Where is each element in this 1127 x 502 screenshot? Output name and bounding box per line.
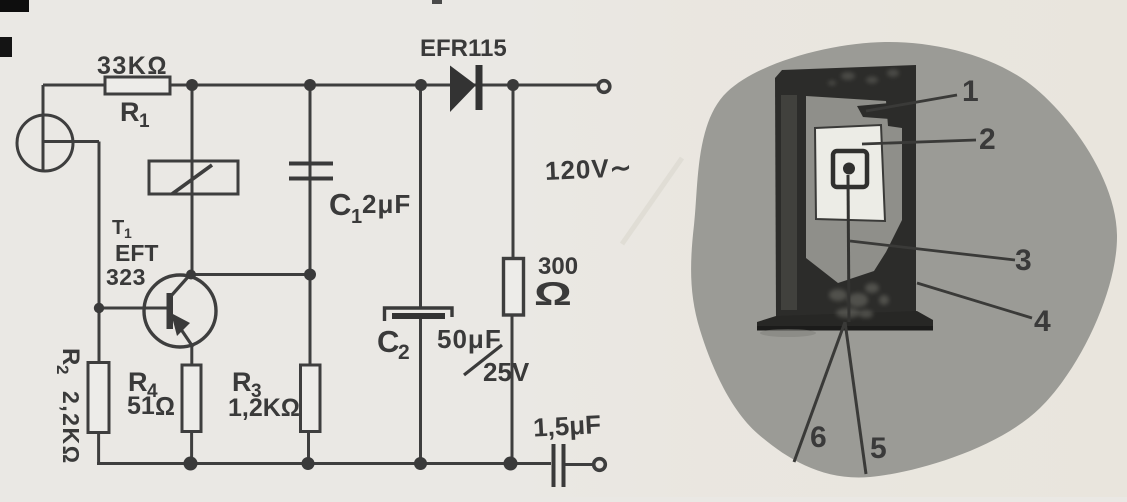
svg-text:2: 2 bbox=[398, 341, 410, 364]
svg-text:33KΩ: 33KΩ bbox=[97, 52, 168, 80]
wire 300ohm column bbox=[512, 85, 515, 259]
wall streak highlight bbox=[781, 95, 797, 310]
speckles base area bbox=[829, 283, 889, 318]
node bottom-R3 bbox=[302, 457, 315, 470]
svg-text:323: 323 bbox=[106, 264, 146, 290]
svg-text:2,2KΩ: 2,2KΩ bbox=[58, 391, 84, 465]
wire top rail bbox=[43, 84, 597, 87]
svg-text:EFT: EFT bbox=[115, 240, 158, 266]
node collector-C1col bbox=[304, 269, 316, 281]
junction square bbox=[833, 151, 867, 187]
microphone M bbox=[17, 115, 73, 171]
node bottom-300 bbox=[504, 457, 518, 471]
callout line 1 bbox=[866, 95, 957, 111]
svg-text:1: 1 bbox=[962, 75, 979, 108]
lead wire from dot bbox=[848, 175, 849, 322]
wire relay column bbox=[191, 85, 194, 275]
terminal bottom right bbox=[594, 459, 606, 471]
svg-text:R: R bbox=[232, 367, 252, 397]
relay coil bbox=[149, 161, 238, 194]
svg-text:51: 51 bbox=[127, 392, 155, 420]
svg-text:Ω: Ω bbox=[534, 275, 572, 312]
svg-text:3: 3 bbox=[1015, 244, 1032, 277]
svg-text:5: 5 bbox=[870, 432, 887, 465]
capacitor 1,5uF bbox=[552, 444, 556, 487]
svg-text:2: 2 bbox=[53, 365, 72, 374]
wire C1 / R3 column bbox=[309, 85, 312, 365]
crystal opening bbox=[806, 96, 902, 283]
white wafer card bbox=[815, 125, 885, 221]
node rail-C1 bbox=[304, 79, 316, 91]
callout line 5 bbox=[845, 322, 866, 474]
callout line 3 bbox=[850, 241, 1015, 260]
node rail-relay bbox=[186, 79, 198, 91]
transistor T1 bbox=[144, 275, 216, 347]
capacitor C2 bbox=[385, 308, 453, 321]
resistor 300 ohm bbox=[504, 259, 524, 316]
node bottom-C2 bbox=[414, 457, 427, 470]
shadow under flange bbox=[760, 329, 816, 337]
ref/value label R2 2,2KΩ (rotated) bbox=[53, 348, 84, 465]
node base bbox=[94, 303, 104, 313]
callout line 6 bbox=[794, 322, 845, 462]
svg-text:Ω: Ω bbox=[155, 391, 175, 421]
wire output cap right bbox=[565, 463, 592, 466]
svg-text:120V∼: 120V∼ bbox=[544, 152, 633, 186]
wire R3 bottom bbox=[307, 432, 310, 465]
svg-text:1,5μF: 1,5μF bbox=[532, 409, 601, 443]
svg-text:C: C bbox=[329, 187, 351, 222]
diode EFR115 bbox=[450, 66, 476, 113]
svg-text:6: 6 bbox=[810, 421, 827, 454]
resistor R1 bbox=[105, 77, 170, 94]
node collector bbox=[186, 270, 196, 280]
wire R4 bottom bbox=[190, 432, 193, 464]
svg-text:1: 1 bbox=[124, 225, 132, 241]
wire left drop to microphone bbox=[42, 85, 45, 170]
callout line 2 bbox=[862, 140, 976, 144]
svg-text:4: 4 bbox=[1034, 305, 1051, 338]
svg-text:50μF: 50μF bbox=[437, 324, 502, 354]
svg-text:1,2KΩ: 1,2KΩ bbox=[228, 394, 300, 422]
resistor R2 bbox=[88, 363, 109, 433]
photo disc bbox=[691, 42, 1117, 478]
resistor R3 bbox=[301, 365, 321, 432]
wire collector link bbox=[191, 273, 311, 276]
wire left column to R2 bbox=[98, 142, 101, 363]
terminal top right bbox=[598, 81, 610, 93]
wire bottom rail bbox=[97, 462, 551, 465]
node rail-C2 bbox=[415, 79, 427, 91]
wire R2 bottom bbox=[97, 433, 100, 463]
transistor frame dark body bbox=[775, 65, 916, 318]
svg-text:2μF: 2μF bbox=[362, 189, 411, 219]
wire base bbox=[99, 307, 167, 310]
node bottom-R4 bbox=[184, 457, 198, 471]
svg-text:2: 2 bbox=[979, 123, 996, 156]
speckles top bar bbox=[828, 69, 899, 86]
resistor R4 bbox=[182, 365, 201, 432]
node rail-diode-out bbox=[507, 79, 519, 91]
svg-text:C: C bbox=[377, 324, 399, 359]
wire C2 column bbox=[419, 85, 422, 307]
wire microphone output bbox=[43, 140, 99, 143]
junction dot ring bbox=[843, 163, 855, 175]
wire emitter to R4 bbox=[190, 346, 193, 365]
capacitor C1 bbox=[289, 162, 333, 166]
svg-text:1: 1 bbox=[351, 206, 362, 228]
svg-text:EFR115: EFR115 bbox=[420, 35, 507, 62]
svg-text:1: 1 bbox=[139, 111, 150, 132]
svg-text:25V: 25V bbox=[483, 357, 530, 387]
svg-text:R: R bbox=[57, 348, 84, 365]
svg-text:R: R bbox=[120, 97, 140, 127]
svg-text:T: T bbox=[112, 217, 124, 239]
base flange bbox=[757, 311, 933, 330]
callout line 4 bbox=[917, 283, 1032, 318]
notch in opening bbox=[857, 103, 890, 119]
